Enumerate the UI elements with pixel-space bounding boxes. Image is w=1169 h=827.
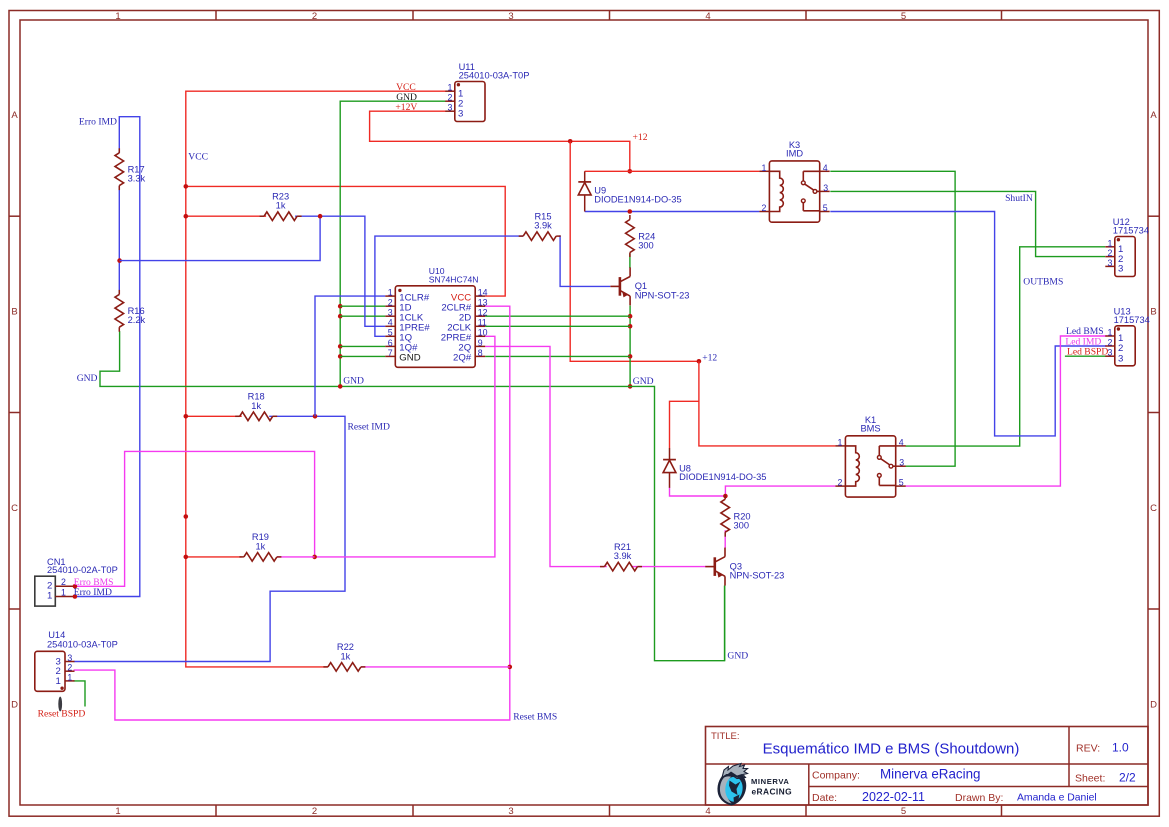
svg-text:NPN-SOT-23: NPN-SOT-23 — [635, 290, 690, 300]
svg-text:A: A — [11, 110, 18, 121]
svg-text:12: 12 — [478, 308, 488, 318]
svg-text:Company:: Company: — [812, 770, 860, 782]
junction GND vert / U10 pin2 — [338, 304, 343, 309]
svg-text:3: 3 — [1118, 353, 1123, 364]
svg-text:2Q#: 2Q# — [453, 353, 472, 364]
junction Reset IMD / U10 pin1 branch — [313, 414, 318, 419]
cursor artifact near U14 — [58, 697, 62, 712]
svg-text:Reset BMS: Reset BMS — [513, 711, 557, 722]
wire U10 pin3 1CLK stub wire — [340, 315, 385, 317]
transistor Q1 NPN-SOT-23 — [619, 277, 622, 296]
wire K3 pin4 to K1 pin3 green — [830, 171, 955, 466]
svg-text:5: 5 — [899, 478, 904, 488]
svg-text:Sheet:: Sheet: — [1075, 773, 1105, 785]
junction GND vert / U10 pin6 — [338, 344, 343, 349]
svg-text:DIODE1N914-DO-35: DIODE1N914-DO-35 — [594, 194, 681, 204]
svg-text:2: 2 — [1107, 248, 1112, 258]
wire R23 right to U10 pin 4 blue — [295, 216, 385, 326]
relay K3 IMD — [769, 161, 819, 222]
wire Led IMD net blue: K3 pin5 down to U13 pin2 — [830, 212, 1106, 436]
svg-text:Reset IMD: Reset IMD — [348, 421, 390, 432]
wire R15 left net blue: U10 pin 5 up and right to R15 — [375, 236, 523, 336]
svg-text:4: 4 — [705, 11, 710, 22]
svg-text:2: 2 — [312, 806, 317, 817]
svg-text:3: 3 — [1107, 258, 1112, 268]
wire Erro IMD net blue: label box, R17, down to CN1 pin 1 — [75, 117, 140, 597]
diode U9 DIODE1N914-DO-35 — [578, 181, 591, 183]
junction VCC/R19 — [184, 555, 189, 560]
svg-text:3: 3 — [823, 183, 828, 193]
svg-text:1k: 1k — [340, 651, 350, 661]
svg-text:GND: GND — [633, 376, 654, 387]
svg-text:TITLE:: TITLE: — [711, 731, 740, 742]
wire +12 branch down to second +12 node — [570, 141, 699, 361]
wire U10 pin7 GND stub wire — [340, 355, 385, 357]
wire GND vertical green: U11 pin2 down to GND bus — [340, 101, 446, 386]
svg-text:NPN-SOT-23: NPN-SOT-23 — [730, 571, 785, 581]
svg-text:4: 4 — [705, 806, 710, 817]
svg-text:3: 3 — [388, 308, 393, 318]
svg-text:1: 1 — [388, 288, 393, 298]
junction +12 node 2 — [697, 359, 702, 364]
svg-text:GND: GND — [727, 651, 748, 662]
svg-text:ShutIN: ShutIN — [1005, 193, 1033, 204]
wire U14 pin1 green dangling — [74, 681, 85, 707]
pin end dot CN1 pin2 — [73, 584, 78, 589]
svg-text:1: 1 — [115, 806, 120, 817]
svg-text:C: C — [1150, 503, 1157, 514]
svg-text:254010-02A-T0P: 254010-02A-T0P — [47, 565, 118, 575]
svg-text:eRACING: eRACING — [752, 787, 793, 797]
resistor R17 3.3k — [118, 148, 120, 153]
svg-text:13: 13 — [478, 298, 488, 308]
svg-text:3: 3 — [899, 458, 904, 468]
wire Reset BMS net magenta: U10 pin13 down, R22, to U14 pin 2 — [74, 306, 510, 720]
svg-text:5: 5 — [388, 328, 393, 338]
svg-text:REV:: REV: — [1076, 743, 1100, 755]
junction Erro-IMD divider / sense branch — [117, 258, 122, 263]
wire K3 pin1 rail red — [585, 170, 760, 172]
wire R24 bottom to Q1 collector (green segment) — [629, 254, 631, 269]
svg-text:2: 2 — [761, 203, 766, 213]
diode U8 cathode lead top — [669, 448, 671, 460]
svg-text:1: 1 — [67, 672, 72, 682]
wire R21 right to Q3 base magenta — [631, 566, 706, 568]
svg-text:Led BSPD: Led BSPD — [1067, 346, 1108, 357]
wire between R17 and R16 blue — [118, 186, 120, 295]
svg-text:2.2k: 2.2k — [128, 315, 146, 325]
junction VCC mid — [184, 514, 189, 519]
wire U10 pin11 2CLK green — [485, 325, 630, 327]
svg-text:+12V: +12V — [395, 102, 417, 113]
junction R19 right node — [312, 555, 317, 560]
svg-text:+12: +12 — [633, 132, 648, 143]
svg-text:Led BMS: Led BMS — [1066, 326, 1104, 337]
resistor R21 3.9k — [600, 566, 605, 568]
title block — [706, 727, 1149, 806]
junction K3pin2/R24 — [628, 209, 633, 214]
wire Led BSPD green dangling at U13 pin3 — [1065, 355, 1106, 357]
svg-text:A: A — [1150, 110, 1157, 121]
connector U12 1715734 — [1115, 237, 1135, 277]
junction +12 above K3 pin1 rail — [628, 169, 633, 174]
junction +12 at x570 — [568, 139, 573, 144]
svg-text:2: 2 — [312, 11, 317, 22]
wire VCC branch to R23 — [186, 215, 266, 217]
resistor R15 3.9k — [519, 235, 524, 237]
resistor R18 1k — [235, 415, 240, 417]
svg-text:1: 1 — [61, 587, 66, 597]
wire U10 pin8 2Q# green — [485, 355, 630, 357]
wire Led BMS net magenta: K1 pin5 to U13 pin1 — [906, 336, 1107, 486]
svg-text:11: 11 — [478, 318, 487, 328]
svg-text:1: 1 — [115, 11, 120, 22]
svg-text:4: 4 — [388, 318, 393, 328]
svg-text:B: B — [11, 306, 17, 317]
svg-text:B: B — [1150, 306, 1156, 317]
svg-text:Minerva eRacing: Minerva eRacing — [880, 767, 980, 782]
svg-text:9: 9 — [478, 338, 483, 348]
svg-text:Date:: Date: — [812, 792, 837, 804]
svg-text:GND: GND — [77, 373, 98, 384]
junction R20 top — [723, 494, 728, 499]
svg-text:+12: +12 — [702, 353, 717, 364]
wire ShutIN net green: K3 pin3 to U12 pin2 — [830, 191, 1105, 256]
svg-text:3: 3 — [447, 103, 452, 113]
svg-text:IMD: IMD — [786, 149, 803, 159]
svg-text:2: 2 — [61, 577, 66, 587]
svg-text:GND: GND — [399, 353, 420, 364]
svg-text:1: 1 — [55, 676, 60, 687]
svg-text:3: 3 — [1118, 264, 1123, 275]
connector CN1 254010-02A-T0P — [35, 576, 56, 606]
svg-text:SN74HC74N: SN74HC74N — [429, 275, 479, 285]
wire OUTBMS net green: U12 pin1 down to K1 pin4 — [906, 247, 1106, 446]
pin end dot CN1 pin1 — [73, 594, 78, 599]
svg-text:10: 10 — [478, 328, 488, 338]
wire R22 right lead magenta — [361, 666, 510, 668]
svg-text:1k: 1k — [255, 541, 265, 551]
svg-text:3: 3 — [67, 653, 72, 663]
junction VCC/top rail — [184, 184, 189, 189]
wire Q3 emitter green to GND — [724, 586, 726, 661]
svg-text:300: 300 — [734, 521, 750, 531]
svg-text:C: C — [11, 503, 18, 514]
connector U14 254010-03A-T0P (mirrored) — [35, 651, 65, 691]
svg-text:2/2: 2/2 — [1119, 771, 1136, 785]
wire +12 node2 down to K1 pin 1 — [699, 361, 836, 446]
wire U10 pin6 1Q# stub wire — [340, 345, 385, 347]
svg-text:3: 3 — [508, 806, 513, 817]
wire GND rail green: from R16 bottom corner along bus to Q3 emitter — [100, 331, 725, 661]
svg-text:1: 1 — [761, 163, 766, 173]
svg-text:4: 4 — [899, 437, 904, 447]
wire branch up to U10 pin 1 blue — [315, 296, 385, 416]
svg-text:DIODE1N914-DO-35: DIODE1N914-DO-35 — [679, 472, 766, 482]
svg-text:5: 5 — [901, 11, 906, 22]
svg-text:254010-03A-T0P: 254010-03A-T0P — [47, 639, 118, 649]
wire divider sense to R23-right node blue — [120, 216, 321, 260]
svg-text:5: 5 — [823, 203, 828, 213]
resistor R16 2.2k — [118, 290, 120, 295]
wire Reset IMD net blue: R18 right across, down to U14 pin 3 — [74, 416, 345, 661]
wire VCC branch to R18 — [186, 415, 242, 417]
svg-text:1: 1 — [47, 591, 52, 602]
wire +12V net: U11 pin3 down and right to +12 node — [370, 111, 630, 171]
resistor R22 1k — [323, 666, 328, 668]
resistor R23 1k — [260, 215, 265, 217]
U10 left pin stubs and numbers — [385, 295, 395, 297]
junction Q1 emitter / GND bus — [628, 384, 633, 389]
svg-text:2: 2 — [837, 478, 842, 488]
svg-text:Reset BSPD: Reset BSPD — [38, 708, 86, 719]
junction Q1 emitter / U10 pin12 — [628, 314, 633, 319]
svg-text:14: 14 — [478, 288, 488, 298]
svg-text:D: D — [1150, 699, 1157, 710]
wire R19 right lead to node — [277, 556, 315, 558]
svg-text:1k: 1k — [251, 401, 261, 411]
junction VCC/R18 — [184, 414, 189, 419]
junction Q1 emitter / U10 pin11 — [628, 324, 633, 329]
svg-text:Erro IMD: Erro IMD — [79, 117, 117, 128]
svg-text:2: 2 — [447, 93, 452, 103]
wire U10 pin2 1D stub wire — [340, 305, 385, 307]
svg-text:Erro IMD: Erro IMD — [74, 587, 112, 598]
svg-text:4: 4 — [823, 163, 828, 173]
svg-text:1715734: 1715734 — [1113, 226, 1149, 236]
svg-text:MINERVA: MINERVA — [751, 777, 790, 786]
svg-text:VCC: VCC — [188, 151, 208, 162]
svg-text:Esquemático IMD e BMS (Shoutdo: Esquemático IMD e BMS (Shoutdown) — [763, 741, 1020, 758]
svg-text:BMS: BMS — [860, 424, 880, 434]
svg-text:1: 1 — [447, 83, 452, 93]
wire VCC branch to R19 — [186, 556, 242, 558]
wire Q1 base net blue: from R15 right corner to Q1 base — [559, 236, 610, 286]
junction GND vert / GND bus — [338, 384, 343, 389]
resistor R24 300 — [629, 215, 631, 220]
wire K3 pin2 net blue: U9 bottom to K3 pin 2 — [585, 211, 760, 213]
wire VCC net: U11 pin1 to left, down main VCC rail, into R22 — [186, 91, 446, 667]
svg-text:3.3k: 3.3k — [128, 174, 146, 184]
junction VCC/R23 — [184, 214, 189, 219]
junction GND vert / U10 pin3 — [338, 314, 343, 319]
svg-text:2: 2 — [67, 663, 72, 673]
resistor R19 1k — [239, 556, 244, 558]
svg-text:6: 6 — [388, 338, 393, 348]
svg-text:1715734: 1715734 — [1114, 315, 1150, 325]
svg-text:1: 1 — [1107, 238, 1112, 248]
svg-text:3.9k: 3.9k — [614, 551, 632, 561]
wire +12 branch to diode U8 — [670, 401, 699, 448]
connector U11 254010-03A-T0P — [455, 82, 485, 122]
wire Q1 emitter green down to GND bus — [629, 306, 631, 387]
connector U13 1715734 — [1115, 326, 1135, 366]
wire Erro BMS net magenta: CN1 pin2 up across down to R19 node — [75, 336, 495, 586]
svg-text:3: 3 — [458, 108, 463, 119]
svg-text:Drawn By:: Drawn By: — [955, 792, 1003, 804]
svg-text:3: 3 — [508, 11, 513, 22]
diode U9 cathode lead top — [584, 171, 586, 182]
svg-text:1.0: 1.0 — [1112, 741, 1129, 755]
resistor R20 300 — [724, 495, 726, 500]
svg-text:Amanda e Daniel: Amanda e Daniel — [1017, 793, 1097, 804]
svg-text:2: 2 — [388, 298, 393, 308]
wire VCC branch to U10 pin 14 via top rail — [186, 186, 505, 296]
svg-text:3.9k: 3.9k — [534, 221, 552, 231]
svg-text:1: 1 — [1107, 328, 1112, 338]
diode U8 DIODE1N914-DO-35 — [663, 459, 676, 461]
relay K1 BMS — [845, 436, 895, 497]
junction GND vert / U10 pin7 — [338, 354, 343, 359]
svg-text:8: 8 — [478, 348, 483, 358]
svg-text:300: 300 — [638, 241, 654, 251]
svg-text:OUTBMS: OUTBMS — [1023, 276, 1063, 287]
wire U10 pin12 2D green — [485, 315, 630, 317]
svg-text:D: D — [11, 699, 18, 710]
U10 right pin stubs and numbers — [475, 295, 485, 297]
wire K1 pin2 net magenta to R20 top — [670, 486, 836, 496]
svg-text:7: 7 — [388, 348, 393, 358]
transistor Q3 NPN-SOT-23 — [713, 557, 716, 576]
svg-text:1: 1 — [837, 437, 842, 447]
svg-text:1k: 1k — [276, 201, 286, 211]
junction R22 right node — [508, 665, 513, 670]
junction R23 right node — [318, 214, 323, 219]
junction Q1 emitter / U10 pin8 — [628, 354, 633, 359]
wire 2Q net magenta: U10 pin9 down to R21 — [485, 346, 607, 566]
svg-text:GND: GND — [343, 375, 364, 386]
svg-text:5: 5 — [901, 806, 906, 817]
IC U10 SN74HC74N body — [395, 286, 475, 368]
wire R20 bottom magenta to Q3 collector — [724, 530, 726, 548]
svg-text:254010-03A-T0P: 254010-03A-T0P — [459, 71, 530, 81]
svg-text:2022-02-11: 2022-02-11 — [862, 790, 925, 804]
